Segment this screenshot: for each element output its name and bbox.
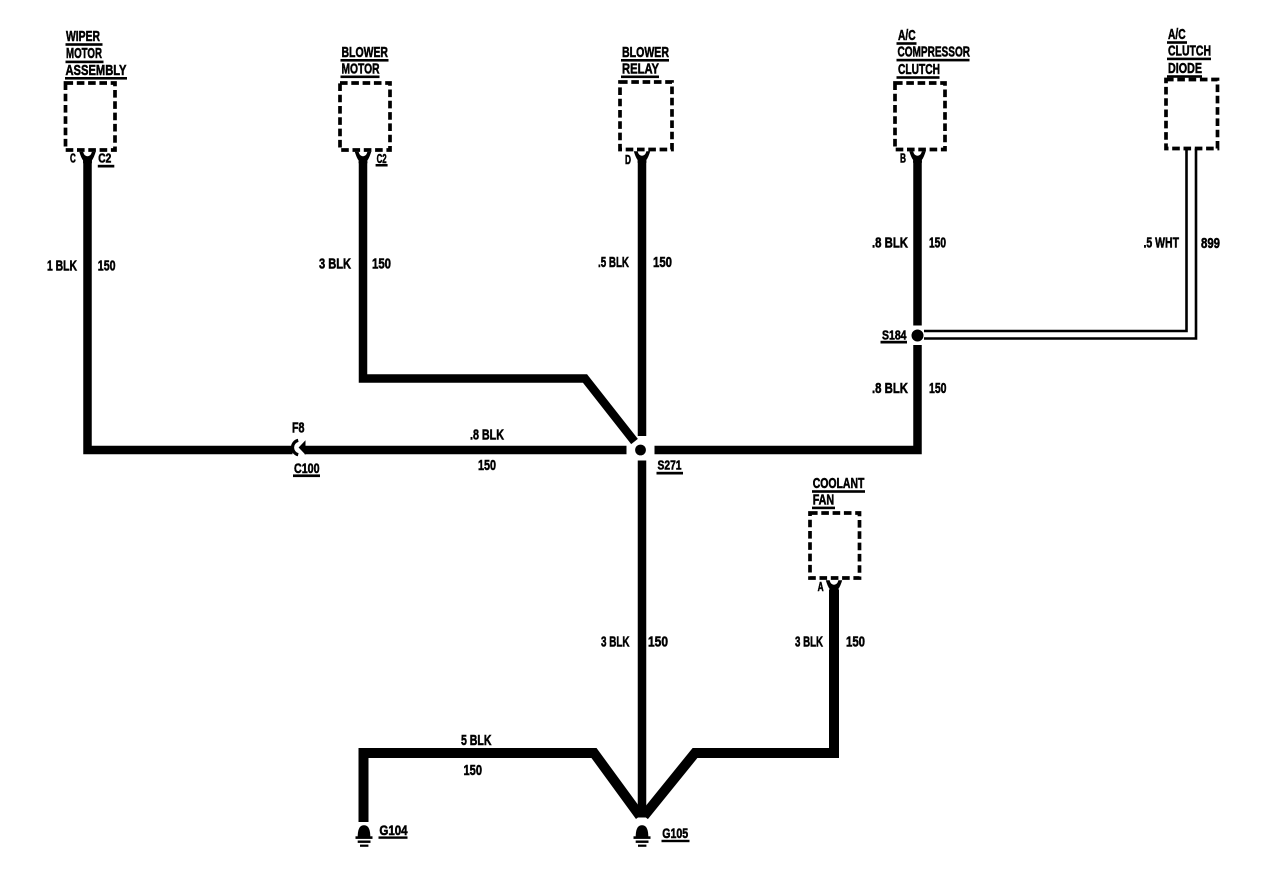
svg-text:C100: C100 (294, 460, 320, 476)
svg-text:CLUTCH: CLUTCH (1168, 43, 1211, 60)
svg-text:150: 150 (478, 457, 496, 474)
svg-text:WIPER: WIPER (66, 28, 100, 45)
svg-text:BLOWER: BLOWER (622, 44, 669, 61)
svg-text:3 BLK: 3 BLK (795, 634, 823, 651)
svg-text:BLOWER: BLOWER (342, 44, 389, 61)
svg-text:.5 WHT: .5 WHT (1144, 235, 1180, 252)
svg-text:150: 150 (372, 256, 391, 273)
svg-text:F8: F8 (292, 420, 305, 437)
svg-text:5 BLK: 5 BLK (461, 732, 492, 749)
svg-text:3 BLK: 3 BLK (601, 634, 630, 651)
svg-text:150: 150 (929, 380, 947, 397)
svg-text:150: 150 (846, 634, 865, 651)
svg-text:G105: G105 (662, 825, 688, 841)
svg-text:CLUTCH: CLUTCH (898, 61, 940, 78)
svg-text:899: 899 (1201, 235, 1220, 252)
svg-text:FAN: FAN (813, 492, 835, 509)
svg-text:.5 BLK: .5 BLK (598, 254, 629, 271)
svg-text:150: 150 (464, 762, 483, 779)
svg-text:MOTOR: MOTOR (342, 60, 380, 77)
svg-text:COOLANT: COOLANT (813, 475, 865, 492)
svg-text:D: D (625, 153, 631, 167)
svg-text:RELAY: RELAY (622, 60, 659, 77)
svg-text:ASSEMBLY: ASSEMBLY (66, 62, 127, 79)
svg-text:A: A (818, 580, 824, 594)
svg-text:C2: C2 (377, 152, 387, 166)
svg-text:MOTOR: MOTOR (66, 45, 102, 62)
svg-text:G104: G104 (379, 822, 407, 838)
svg-text:.8 BLK: .8 BLK (872, 380, 908, 397)
svg-text:B: B (900, 151, 906, 165)
svg-text:.8 BLK: .8 BLK (470, 427, 504, 444)
svg-text:A/C: A/C (898, 27, 916, 44)
svg-text:150: 150 (929, 234, 946, 251)
svg-text:S184: S184 (882, 327, 907, 342)
svg-text:COMPRESSOR: COMPRESSOR (898, 44, 971, 61)
svg-text:150: 150 (648, 634, 668, 651)
svg-text:150: 150 (653, 254, 672, 271)
svg-text:S271: S271 (658, 457, 682, 472)
svg-text:.8 BLK: .8 BLK (872, 234, 908, 251)
svg-text:DIODE: DIODE (1168, 60, 1202, 77)
svg-text:1 BLK: 1 BLK (47, 258, 77, 275)
svg-text:3 BLK: 3 BLK (319, 256, 351, 273)
svg-text:150: 150 (98, 258, 116, 275)
svg-text:C2: C2 (98, 152, 111, 166)
svg-text:C: C (70, 151, 76, 165)
svg-text:A/C: A/C (1168, 26, 1186, 43)
